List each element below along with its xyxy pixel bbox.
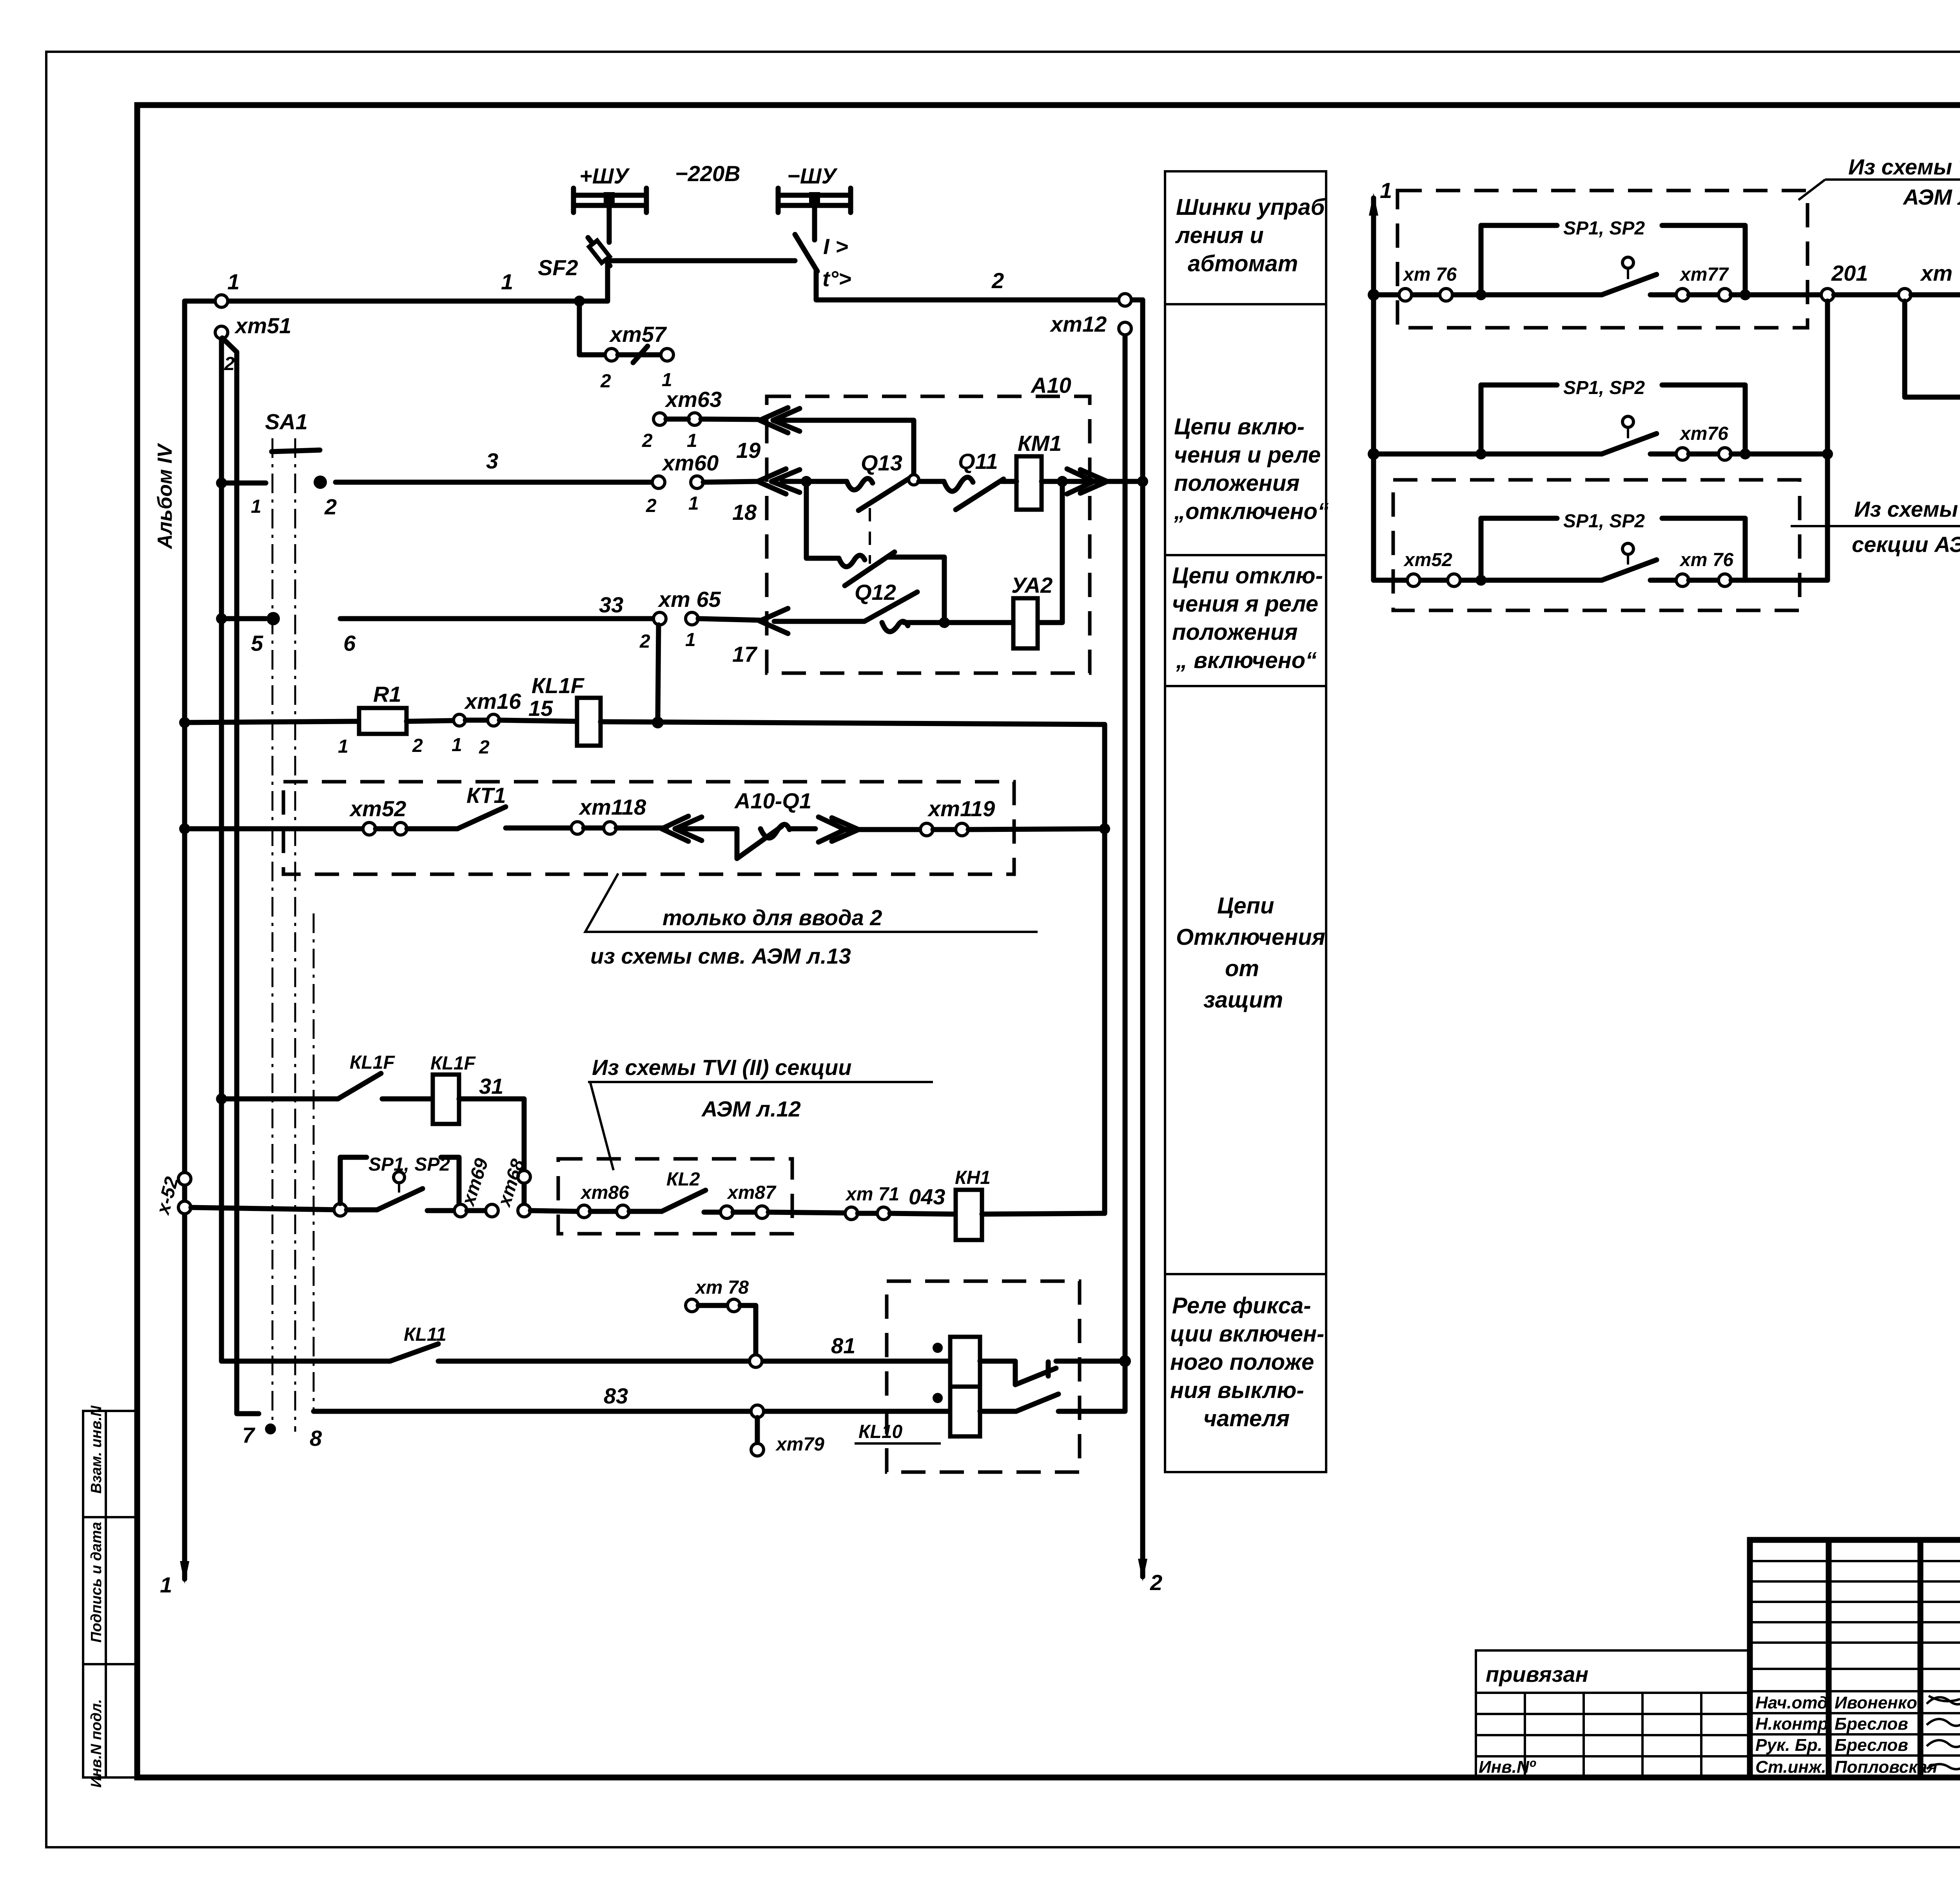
terminal loop left xyxy=(334,1204,347,1216)
junction wire1/XT57 xyxy=(574,296,585,307)
arrow bottom wire 1 xyxy=(180,1561,189,1584)
polarity dot upper xyxy=(933,1343,943,1353)
label КL10 underlined xyxy=(855,1422,941,1443)
dashed box branch A xyxy=(1397,191,1808,328)
arrow >> out xyxy=(818,817,858,842)
wire to XT76 xyxy=(1650,452,1676,457)
contact KL11 xyxy=(390,1344,438,1361)
bus v3 wire2 down xyxy=(1140,300,1145,1577)
terminal XT52-a xyxy=(1407,574,1420,586)
contact SP branch B xyxy=(1602,434,1657,454)
contact SP branch A xyxy=(1602,274,1657,295)
svg-text:КL11: КL11 xyxy=(404,1324,446,1345)
svg-text:2: 2 xyxy=(646,496,657,516)
contact SA1 moving dot 2 xyxy=(314,476,327,489)
bypass loop C xyxy=(1481,518,1745,580)
svg-text:хт12: хт12 xyxy=(1049,312,1107,336)
junction loop B left xyxy=(1475,448,1486,459)
svg-text:Q12: Q12 xyxy=(855,580,896,605)
wire pin19 to Q13 output xyxy=(773,420,914,476)
column text Цепи включения xyxy=(1174,414,1329,524)
svg-text:SP1, SP2: SP1, SP2 xyxy=(1563,378,1645,398)
terminal XT51-2 xyxy=(215,326,228,339)
svg-text:2: 2 xyxy=(991,268,1004,293)
svg-text:хт52: хт52 xyxy=(349,796,406,821)
svg-text:КL1F: КL1F xyxy=(430,1053,476,1074)
wire KL1F to v1 xyxy=(601,722,1105,724)
terminal XT76-b xyxy=(1719,448,1731,460)
wire KM1 junction down to YA2 xyxy=(1038,481,1062,623)
wire SA1 contact 5 stub xyxy=(221,616,266,621)
terminal XT77-a xyxy=(1676,289,1689,301)
bus v2 from XT12 xyxy=(1123,332,1128,1361)
terminal XT78-b xyxy=(728,1299,740,1312)
terminal XT79 junction xyxy=(751,1405,764,1418)
wire between XT76 xyxy=(1689,452,1719,457)
svg-text:Q11: Q11 xyxy=(958,449,998,474)
pushbutton knob B xyxy=(1622,416,1633,438)
junction loop A right xyxy=(1740,289,1751,300)
svg-text:КН1: КН1 xyxy=(955,1167,991,1188)
svg-text:хт 76: хт 76 xyxy=(1679,550,1733,570)
terminal XT60-1 xyxy=(691,476,703,488)
svg-text:Реле фикса-: Реле фикса- xyxy=(1172,1293,1311,1318)
terminal XT86-b xyxy=(617,1205,629,1218)
svg-text:из схемы смв. АЭМ л.13: из схемы смв. АЭМ л.13 xyxy=(590,944,851,968)
breaker SF2 contact xyxy=(588,238,610,266)
svg-text:1: 1 xyxy=(251,496,261,517)
terminal XT78 junction xyxy=(750,1355,762,1367)
svg-text:2: 2 xyxy=(479,737,490,758)
svg-text:хт 71: хт 71 xyxy=(845,1184,899,1205)
terminal XT79 end xyxy=(751,1443,764,1456)
wire XT71 to KH1 xyxy=(890,1213,956,1214)
wire 81 xyxy=(438,1359,950,1364)
pushbutton knob A xyxy=(1622,257,1633,279)
terminal XT16-1 xyxy=(454,714,465,726)
wire XT119 to v1 xyxy=(968,829,1105,830)
svg-text:привязан: привязан xyxy=(1486,1662,1588,1687)
wire Q11 to KM1 xyxy=(1002,479,1016,484)
svg-text:17: 17 xyxy=(732,642,758,666)
pin 17 arrow xyxy=(760,608,788,634)
switch SA1 column line 2 xyxy=(294,438,296,1432)
svg-text:УА2: УА2 xyxy=(1011,573,1053,597)
terminal х-52 upper xyxy=(178,1173,191,1185)
pin 18 arrow xyxy=(758,469,800,494)
wire branch C xyxy=(1374,578,1602,583)
switch SA1 column line 1 xyxy=(272,438,274,1427)
wire between XT16 xyxy=(465,718,488,723)
svg-text:Из схемы ТСН I (II) секции: Из схемы ТСН I (II) секции xyxy=(1848,154,1960,179)
svg-text:ления и: ления и xyxy=(1175,223,1264,248)
svg-text:КL1F: КL1F xyxy=(532,673,585,698)
terminal XT76-b xyxy=(1719,574,1731,586)
wire A10-Q1 to arrow out xyxy=(789,826,815,831)
signature squiggles xyxy=(1927,1696,1960,1769)
wire 31 xyxy=(459,1099,524,1204)
switch SA1 column line 3 xyxy=(313,913,315,1411)
svg-text:Из схемы ТYI (II): Из схемы ТYI (II) xyxy=(1854,497,1960,521)
bus 3 vertical xyxy=(222,338,259,1414)
dashed box branch C xyxy=(1393,480,1800,610)
svg-text:2: 2 xyxy=(412,735,423,756)
terminal XT119-a xyxy=(920,823,933,836)
svg-text:Нач.отд.: Нач.отд. xyxy=(1755,1693,1833,1712)
wire XT60 to pin18 xyxy=(703,481,758,482)
text Из схемы ТYI xyxy=(1791,497,1960,557)
overcurrent release contact xyxy=(795,234,817,271)
svg-text:SP1, SP2: SP1, SP2 xyxy=(1563,511,1645,532)
wire between XT57 terminals xyxy=(618,352,661,358)
coil KL1F xyxy=(433,1075,459,1124)
svg-text:хт 65: хт 65 xyxy=(657,587,721,612)
SP1 SP2 bypass loop left xyxy=(340,1157,367,1204)
terminal XT12-b xyxy=(1119,322,1131,335)
svg-text:SA1: SA1 xyxy=(265,409,308,434)
terminal XT12-a xyxy=(1119,294,1131,306)
svg-text:ного положе: ного положе xyxy=(1170,1349,1314,1375)
wire contact to coil xyxy=(382,1097,433,1102)
wire 3 xyxy=(336,480,659,485)
wire XT78 drop xyxy=(740,1305,756,1355)
pushbutton knob C xyxy=(1622,543,1633,565)
junction branch A xyxy=(1368,289,1379,301)
svg-text:8: 8 xyxy=(310,1426,322,1451)
svg-text:81: 81 xyxy=(831,1333,855,1358)
junction loop B right xyxy=(1740,448,1751,459)
column text Шинки управления и автомат xyxy=(1175,194,1326,276)
svg-text:1: 1 xyxy=(452,735,462,755)
svg-text:31: 31 xyxy=(479,1074,503,1098)
contact Q12 xyxy=(864,592,917,632)
svg-text:хт57: хт57 xyxy=(609,322,667,347)
bypass loop A xyxy=(1481,225,1745,295)
wire from SF2 to -ШУ contact xyxy=(608,258,795,263)
contact KL1F xyxy=(338,1073,381,1099)
svg-text:хт 78: хт 78 xyxy=(694,1277,749,1298)
wire XT52 to KT1 xyxy=(407,826,457,831)
terminal XT52-b xyxy=(1448,574,1460,586)
arrow bottom wire 2 xyxy=(1138,1559,1147,1581)
terminal XT57-2 xyxy=(605,349,618,361)
svg-text:ции включен-: ции включен- xyxy=(1170,1321,1324,1347)
svg-text:Из схемы ТVI (II) секции: Из схемы ТVI (II) секции xyxy=(592,1055,851,1080)
wire to XT69 xyxy=(427,1208,454,1213)
terminal XT68 junction on wire xyxy=(518,1204,530,1217)
svg-text:1: 1 xyxy=(338,736,348,757)
function column boxes xyxy=(1165,171,1326,1472)
svg-text:положения: положения xyxy=(1172,619,1298,645)
привязан table xyxy=(1476,1650,1750,1777)
svg-text:хт63: хт63 xyxy=(664,387,722,412)
stamp column bottom-left xyxy=(83,1411,137,1777)
wire B to vertical xyxy=(1731,452,1828,457)
wire SA1 contact 1 stub xyxy=(221,481,266,486)
contact KT1 xyxy=(457,807,506,829)
terminal XT52-a xyxy=(363,822,376,835)
terminal XT87-b xyxy=(756,1206,768,1218)
wire between XT119 xyxy=(933,827,956,832)
vertical 201 down xyxy=(1825,301,1830,580)
svg-text:хт119: хт119 xyxy=(927,796,995,821)
svg-text:чения и реле: чения и реле xyxy=(1174,442,1321,468)
svg-text:Цепи отклю-: Цепи отклю- xyxy=(1172,563,1323,588)
coil KM1 xyxy=(1016,456,1042,510)
svg-text:1: 1 xyxy=(227,269,240,294)
wire KL1F row left xyxy=(221,1097,338,1102)
svg-text:Ст.инж.: Ст.инж. xyxy=(1755,1757,1826,1777)
contact Q13 aux lower xyxy=(806,481,944,621)
arrow << in xyxy=(662,816,702,841)
svg-text:чения я реле: чения я реле xyxy=(1172,591,1318,617)
svg-text:Взам. инв.N: Взам. инв.N xyxy=(88,1405,105,1494)
wire branch B xyxy=(1374,452,1602,457)
wire branch A xyxy=(1374,292,1602,298)
coil КН1 xyxy=(956,1190,982,1240)
wire KT1 to XT118 xyxy=(506,826,571,831)
svg-text:Инв.N подл.: Инв.N подл. xyxy=(88,1699,105,1788)
wire 33 xyxy=(340,616,660,621)
module A10 dashed box xyxy=(767,396,1090,673)
wire to KL2 box xyxy=(530,1211,578,1211)
wire 2 xyxy=(816,270,1143,300)
wire between XT76 xyxy=(1689,578,1719,583)
svg-text:КL10: КL10 xyxy=(858,1422,903,1442)
column text Цепи отключения от защит xyxy=(1176,893,1325,1013)
wire XT87 to XT71 xyxy=(768,1212,845,1213)
svg-text:Q13: Q13 xyxy=(861,450,902,475)
junction SA1 stub 5 xyxy=(216,613,227,624)
relay contact lower xyxy=(980,1361,1125,1411)
svg-text:−ШУ: −ШУ xyxy=(787,163,838,188)
screw symbol xyxy=(633,346,648,363)
svg-text:защит: защит xyxy=(1203,987,1283,1013)
note leader line xyxy=(585,873,1038,932)
terminal XT68 xyxy=(518,1171,530,1183)
svg-text:1: 1 xyxy=(685,630,696,650)
junction v3/A10 out xyxy=(1137,476,1148,487)
wire Q13 to Q11 xyxy=(919,479,944,484)
busbar -ШУ xyxy=(778,188,851,212)
collector v1 vertical xyxy=(1102,724,1107,1213)
wire between XT86 xyxy=(590,1209,617,1214)
branch KL1F right: drop from хт77 xyxy=(1905,301,1960,397)
wire KM1 output xyxy=(1042,479,1143,484)
pin 19 arrow xyxy=(760,408,800,433)
terminal XT69-a xyxy=(454,1204,467,1217)
terminal XT52-b xyxy=(394,822,407,835)
terminal XT65-1 xyxy=(686,612,698,625)
svg-text:83: 83 xyxy=(604,1383,628,1408)
junction Q12/aux xyxy=(939,617,950,628)
arrow out >> xyxy=(1067,469,1107,494)
svg-text:−220В: −220В xyxy=(675,161,740,186)
terminal XT63-1 xyxy=(688,413,701,425)
wire R1 row left xyxy=(185,721,359,723)
svg-text:SF2: SF2 xyxy=(538,255,578,280)
junction Q13 aux branch xyxy=(801,476,812,487)
svg-text:I >: I > xyxy=(823,234,848,259)
svg-text:1: 1 xyxy=(501,269,513,294)
dashed box KT1 row xyxy=(283,782,1014,874)
svg-text:5: 5 xyxy=(251,631,263,655)
wire to XT76 xyxy=(1650,578,1676,583)
svg-text:хт60: хт60 xyxy=(661,450,719,475)
svg-text:ния выклю-: ния выклю- xyxy=(1170,1378,1304,1403)
svg-text:„отключено“: „отключено“ xyxy=(1174,499,1329,524)
svg-text:19: 19 xyxy=(736,438,760,463)
contact KL2 xyxy=(662,1190,706,1211)
wire 81: bus2 corner xyxy=(221,1359,390,1364)
busbar +ШУ xyxy=(573,188,646,212)
title grid rows left xyxy=(1750,1561,1960,1756)
svg-text:хт 77: хт 77 xyxy=(1920,261,1960,285)
bus 2 vertical xyxy=(219,339,224,1361)
svg-text:Цепи вклю-: Цепи вклю- xyxy=(1174,414,1305,439)
contact SP break xyxy=(347,1189,423,1210)
svg-text:2: 2 xyxy=(224,354,235,374)
wire between XT78 xyxy=(698,1303,728,1308)
svg-text:t°>: t°> xyxy=(822,266,851,291)
terminal хт77 right xyxy=(1898,289,1911,301)
terminal XT65-2 xyxy=(653,612,666,625)
terminal XT86-a xyxy=(578,1205,590,1218)
wire to SF2 xyxy=(1911,292,1960,298)
svg-text:Инв.Nº: Инв.Nº xyxy=(1479,1757,1536,1777)
text Из схемы ТСН xyxy=(1798,154,1960,209)
wire 1 vertical with arrow xyxy=(1369,193,1378,580)
svg-text:хт51: хт51 xyxy=(234,313,291,338)
wire to A10-Q1 xyxy=(675,826,737,831)
terminal XT71-b xyxy=(877,1207,890,1220)
terminal XT77-b xyxy=(1719,289,1731,301)
terminal XT51-1 xyxy=(215,295,228,307)
svg-text:хт86: хт86 xyxy=(580,1182,629,1203)
terminal XT76-b xyxy=(1440,289,1452,301)
svg-text:хт 76: хт 76 xyxy=(1402,264,1457,285)
svg-text:чателя: чателя xyxy=(1203,1406,1290,1431)
svg-text:КL1F: КL1F xyxy=(350,1052,396,1073)
wire Q12 to YA2 xyxy=(904,620,1013,625)
svg-text:043: 043 xyxy=(909,1184,945,1209)
junction on bus1 xyxy=(179,823,190,834)
svg-text:А10-Q1: А10-Q1 xyxy=(734,788,811,813)
terminal XT60-2 xyxy=(652,476,665,488)
svg-text:2: 2 xyxy=(600,371,611,392)
svg-text:А10: А10 xyxy=(1030,373,1071,398)
svg-text:АЭМ л.17: АЭМ л.17 xyxy=(1902,185,1960,209)
svg-text:2: 2 xyxy=(1150,1570,1162,1595)
svg-text:Шинки упраб: Шинки упраб xyxy=(1176,194,1326,220)
wire KL2 to XT87 xyxy=(704,1210,720,1215)
terminal XT76-a xyxy=(1676,574,1689,586)
junction v1/KT1 row xyxy=(1099,823,1110,834)
junction wire81/v2 xyxy=(1119,1355,1131,1367)
svg-text:R1: R1 xyxy=(373,682,401,706)
bypass loop B xyxy=(1481,385,1745,454)
junction vertical 201 xyxy=(1822,448,1833,459)
svg-text:абтомат: абтомат xyxy=(1188,251,1298,276)
wire between XT87 xyxy=(733,1210,756,1215)
polarity dot lower xyxy=(933,1393,943,1403)
svg-text:2: 2 xyxy=(324,494,337,519)
switch SA1 tick xyxy=(272,450,320,452)
svg-text:1: 1 xyxy=(1380,178,1392,203)
dashed link Q13 contacts xyxy=(869,508,871,564)
wire between XT118 xyxy=(584,826,604,831)
bus 1 vertical xyxy=(182,301,187,1579)
svg-text:7: 7 xyxy=(242,1423,256,1447)
svg-text:хт79: хт79 xyxy=(775,1434,824,1455)
coil KL10 lower xyxy=(950,1387,980,1436)
wire XT86 to KL2 xyxy=(629,1209,662,1214)
svg-text:Альбом IV: Альбом IV xyxy=(154,443,176,550)
wire 83 xyxy=(314,1409,950,1414)
breaker SF2 left: drop from +ШУ xyxy=(607,208,612,242)
svg-text:Бреслов: Бреслов xyxy=(1835,1714,1908,1734)
svg-text:хт87: хт87 xyxy=(726,1182,777,1203)
junction dot SA1 line bottom xyxy=(265,1423,276,1434)
svg-text:Цепи: Цепи xyxy=(1217,893,1274,919)
svg-text:от: от xyxy=(1225,956,1259,981)
svg-text:Ивоненко: Ивоненко xyxy=(1835,1693,1917,1712)
svg-text:1: 1 xyxy=(687,430,697,451)
terminal XT71-a xyxy=(845,1207,858,1220)
resistor R1 xyxy=(359,708,407,734)
svg-text:SP1, SP2: SP1, SP2 xyxy=(1563,218,1645,239)
junction loop C left xyxy=(1475,575,1486,586)
wire KT1 row left xyxy=(185,826,363,831)
svg-text:Н.контр.: Н.контр. xyxy=(1755,1714,1833,1734)
svg-text:6: 6 xyxy=(343,631,356,655)
resistor R1 row: junction on bus1 xyxy=(179,717,190,728)
svg-text:18: 18 xyxy=(732,500,757,525)
text Из схемы ТVI секции left xyxy=(588,1055,933,1170)
svg-text:+ШУ: +ШУ xyxy=(579,163,630,188)
wire XT16 to KL1F xyxy=(499,720,577,721)
terminal XT69-b xyxy=(486,1204,498,1217)
svg-text:2: 2 xyxy=(639,631,650,652)
svg-text:КL2: КL2 xyxy=(666,1169,700,1190)
relay KL10 dashed box xyxy=(887,1281,1080,1472)
wire XT65-1 to pin17 xyxy=(698,619,760,620)
svg-text:Отключения: Отключения xyxy=(1176,924,1325,950)
terminal XT16-2 xyxy=(488,714,499,726)
svg-text:Бреслов: Бреслов xyxy=(1835,1736,1908,1755)
wire XT65-2 down to R1 row xyxy=(658,625,659,721)
svg-text:33: 33 xyxy=(599,592,623,617)
svg-text:2: 2 xyxy=(642,430,653,451)
svg-text:хт16: хт16 xyxy=(464,689,521,713)
svg-text:положения: положения xyxy=(1174,470,1299,496)
svg-text:Попловская: Попловская xyxy=(1835,1757,1937,1777)
svg-text:Рук. Бр.: Рук. Бр. xyxy=(1755,1736,1822,1755)
svg-text:хт76: хт76 xyxy=(1679,423,1728,444)
svg-text:1: 1 xyxy=(160,1572,172,1597)
junction loop A left xyxy=(1475,289,1486,300)
junction KL1F row on bus2 xyxy=(216,1093,227,1104)
svg-text:SP1, SP2: SP1, SP2 xyxy=(368,1154,450,1175)
title block main outline xyxy=(1750,1540,1960,1777)
relay contact upper xyxy=(980,1361,1125,1385)
terminal XT63-2 xyxy=(653,413,666,425)
wire XT118 to arrow xyxy=(616,826,666,831)
terminal XT119-b xyxy=(956,823,968,836)
wire C to vertical xyxy=(1731,578,1828,583)
terminal XT118-b xyxy=(604,822,616,834)
branch B junction xyxy=(1368,448,1379,460)
